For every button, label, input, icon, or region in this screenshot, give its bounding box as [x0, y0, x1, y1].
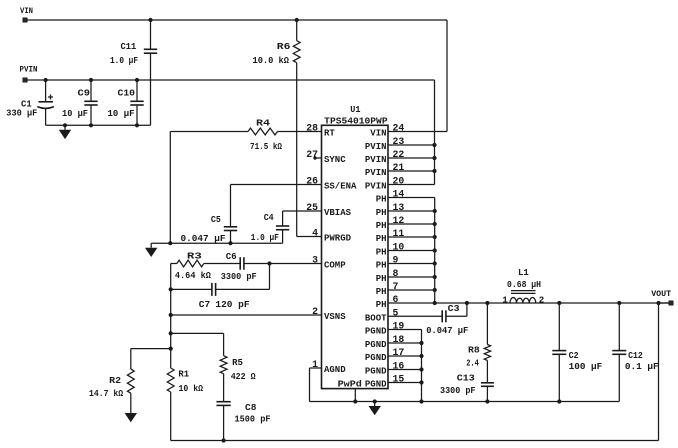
resistor R3 — [171, 260, 241, 267]
svg-text:71.5 kΩ: 71.5 kΩ — [250, 141, 282, 152]
wire PVIN pin at y=158 — [388, 157, 435, 159]
node C2 on gnd rail — [557, 399, 561, 403]
svg-text:PVIN: PVIN — [365, 142, 387, 152]
svg-text:422 Ω: 422 Ω — [231, 371, 256, 382]
svg-text:AGND: AGND — [324, 365, 346, 375]
node PH bus at y=277 — [433, 275, 437, 279]
wire PVIN pin at y=145 — [388, 144, 435, 146]
svg-text:PH: PH — [376, 234, 387, 244]
svg-text:R8: R8 — [468, 344, 480, 355]
svg-text:10 µF: 10 µF — [62, 108, 88, 119]
node PGND bus at y=343 — [419, 341, 423, 345]
capacitor C13 — [481, 383, 494, 402]
node PH bus at y=290 — [433, 288, 437, 292]
resistor R1 — [167, 368, 174, 441]
svg-text:COMP: COMP — [324, 261, 346, 271]
resistor R4 — [170, 128, 321, 135]
svg-text:120 pF: 120 pF — [215, 299, 249, 310]
node VSNS junction — [169, 313, 173, 317]
node C9 bottom — [89, 123, 93, 127]
svg-text:C13: C13 — [457, 373, 475, 384]
svg-text:RT: RT — [324, 129, 335, 139]
svg-text:3300 pF: 3300 pF — [440, 385, 476, 396]
svg-text:U1: U1 — [350, 104, 360, 115]
inductor L1 — [510, 291, 536, 303]
capacitor C10 — [130, 80, 143, 125]
svg-text:VBIAS: VBIAS — [324, 208, 352, 218]
node C13 on gnd rail — [485, 399, 489, 403]
capacitor C11 — [144, 20, 157, 125]
node PVIN/C9 — [89, 78, 93, 82]
wire power ground rail — [310, 401, 620, 403]
terminal PVIN — [23, 78, 27, 82]
capacitor C6 — [240, 257, 321, 270]
node C5 on gnd rail — [228, 241, 232, 245]
svg-text:14.7 kΩ: 14.7 kΩ — [89, 388, 123, 399]
svg-text:PH: PH — [376, 221, 387, 231]
svg-text:330 µF: 330 µF — [6, 108, 37, 119]
terminal VOUT — [669, 301, 673, 305]
svg-text:C3: C3 — [448, 303, 460, 314]
wire VIN pin 24 stub — [388, 131, 447, 133]
svg-text:1500 pF: 1500 pF — [235, 413, 271, 424]
node VIN/R6 junction — [295, 18, 299, 22]
svg-text:C5: C5 — [211, 214, 221, 225]
wire PH pin at y=224 — [388, 223, 435, 225]
node R2 branch tap — [169, 347, 173, 351]
node PGND bus on gnd rail — [419, 399, 423, 403]
wire BOOT pin 5 — [388, 315, 442, 317]
wire VIN rail — [27, 19, 447, 21]
svg-text:10 µF: 10 µF — [108, 108, 135, 119]
wire PH output line to VOUT — [435, 302, 669, 304]
svg-text:PwPd: PwPd — [338, 379, 362, 390]
svg-text:0.68 µH: 0.68 µH — [507, 279, 541, 290]
capacitor C3 — [442, 303, 467, 322]
node C2 tap — [557, 301, 561, 305]
node PwPd on gnd rail — [353, 399, 357, 403]
terminal VIN — [23, 18, 27, 22]
svg-text:PVIN: PVIN — [20, 65, 38, 75]
svg-text:C4: C4 — [264, 212, 274, 223]
node SYNC stub end — [313, 156, 316, 159]
resistor R2 — [127, 349, 134, 409]
svg-text:0.047 µF: 0.047 µF — [426, 325, 468, 336]
svg-text:PGND: PGND — [365, 340, 387, 350]
wire VBIAS pin 25 — [283, 210, 322, 212]
svg-text:PVIN: PVIN — [365, 155, 387, 165]
svg-text:VIN: VIN — [20, 6, 33, 16]
svg-text:R5: R5 — [232, 357, 243, 368]
node PGND bus at y=382.5 — [419, 380, 423, 384]
node C12 tap — [617, 301, 621, 305]
wire input ground rail — [46, 124, 151, 126]
svg-text:R4: R4 — [256, 118, 270, 129]
node COMP/C7 branch — [267, 261, 271, 265]
svg-text:PVIN: PVIN — [365, 168, 387, 178]
ground input rail — [59, 125, 71, 139]
wire PVIN rail — [27, 79, 435, 81]
svg-text:SYNC: SYNC — [324, 155, 346, 165]
svg-text:R1: R1 — [178, 369, 189, 380]
svg-text:C10: C10 — [118, 88, 136, 99]
resistor R8 — [484, 303, 490, 383]
svg-text:10.0 kΩ: 10.0 kΩ — [253, 55, 290, 66]
wire down to C4 — [282, 211, 284, 226]
svg-text:PH: PH — [376, 195, 387, 205]
svg-text:PH: PH — [376, 300, 387, 310]
svg-text:C12: C12 — [628, 350, 643, 361]
svg-text:PH: PH — [376, 248, 387, 258]
svg-text:PH: PH — [376, 287, 387, 297]
svg-text:C8: C8 — [245, 402, 257, 413]
node PH bus at y=224 — [433, 222, 437, 226]
wire PVIN pin at y=171 — [388, 170, 435, 172]
svg-text:1: 1 — [502, 295, 508, 306]
wire VSNS pin 2 — [171, 314, 322, 316]
op-amp U1 TPS54010PWP body — [322, 125, 389, 388]
capacitor C12 — [612, 303, 626, 402]
capacitor C7 — [171, 264, 270, 296]
node feedback tap — [656, 301, 660, 305]
node R8 snubber tap — [485, 301, 489, 305]
svg-text:PGND: PGND — [365, 353, 387, 363]
svg-text:2.4: 2.4 — [466, 357, 479, 368]
ground R2 — [125, 409, 137, 423]
node PVIN/C10 — [135, 78, 139, 82]
svg-text:VIN: VIN — [370, 129, 386, 139]
svg-text:PWRGD: PWRGD — [324, 234, 352, 244]
wire PH bus — [434, 198, 436, 304]
ground analog rail — [145, 243, 157, 257]
node PVIN/C1 — [44, 78, 48, 82]
wire to VOUT terminal — [659, 302, 670, 304]
wire down to C5 — [230, 185, 232, 227]
wire R4 left leg down to analog gnd rail — [169, 132, 171, 244]
wire PH pin at y=197.5 — [388, 197, 435, 199]
svg-text:4: 4 — [312, 227, 318, 238]
wire PGND pin at y=343 — [388, 342, 422, 344]
wire PH pin at y=303 — [388, 302, 435, 304]
svg-text:C6: C6 — [226, 251, 237, 262]
node C7 left on feedback stem — [169, 287, 173, 291]
resistor R5 — [220, 333, 227, 401]
wire PGND bus — [421, 330, 423, 402]
svg-text:PH: PH — [376, 274, 387, 284]
svg-text:PGND: PGND — [365, 327, 387, 337]
svg-text:1.0 µF: 1.0 µF — [251, 232, 279, 243]
wire PGND pin at y=356 — [388, 355, 422, 357]
svg-text:PGND: PGND — [365, 367, 387, 377]
svg-text:R6: R6 — [277, 41, 291, 52]
svg-text:PH: PH — [376, 208, 387, 218]
node R5 branch tap — [169, 331, 173, 335]
wire feedback stem (COMP to R1) — [170, 264, 172, 369]
svg-text:2: 2 — [539, 295, 545, 306]
svg-text:BOOT: BOOT — [365, 314, 387, 324]
svg-text:0.047 µF: 0.047 µF — [181, 233, 226, 244]
svg-text:C2: C2 — [569, 350, 579, 361]
svg-text:PVIN: PVIN — [365, 182, 387, 192]
svg-text:3300 pF: 3300 pF — [221, 271, 257, 282]
capacitor C4 — [276, 226, 289, 243]
svg-text:26: 26 — [306, 175, 318, 186]
svg-text:VSNS: VSNS — [324, 312, 346, 322]
wire VIN drop to pin 24 — [446, 20, 448, 132]
svg-text:28: 28 — [306, 122, 318, 133]
wire PGND pin at y=329.5 — [388, 329, 422, 331]
svg-text:C9: C9 — [78, 88, 91, 99]
node PVIN bus at y=171 — [432, 169, 436, 173]
svg-text:L1: L1 — [518, 267, 529, 278]
wire PVIN bus down to pins — [434, 80, 436, 185]
wire PH pin at y=250.5 — [388, 250, 435, 252]
node R4 leg on gnd rail — [168, 241, 172, 245]
wire PH pin at y=277 — [388, 276, 435, 278]
wire feedback drop — [658, 303, 660, 441]
wire SS/ENA pin 26 — [231, 184, 322, 186]
wire PGND pin at y=369.5 — [388, 369, 422, 371]
node C10 bottom — [135, 123, 139, 127]
wire analog ground rail — [151, 242, 282, 244]
node PVIN bus at y=145 — [432, 143, 436, 147]
wire PwPd stub — [354, 389, 356, 402]
svg-text:SS/ENA: SS/ENA — [324, 182, 357, 192]
wire PH pin at y=211 — [388, 210, 435, 212]
svg-text:1.0 µF: 1.0 µF — [110, 55, 138, 66]
svg-text:C11: C11 — [121, 41, 137, 52]
svg-text:TPS54010PWP: TPS54010PWP — [324, 116, 388, 127]
svg-text:10 kΩ: 10 kΩ — [179, 383, 204, 394]
svg-text:3: 3 — [312, 254, 318, 265]
svg-text:4.64 kΩ: 4.64 kΩ — [175, 270, 211, 281]
wire PH pin at y=237 — [388, 236, 435, 238]
svg-text:PGND: PGND — [365, 380, 387, 390]
wire PH pin at y=290 — [388, 289, 435, 291]
resistor R6 — [293, 20, 300, 237]
svg-text:100 µF: 100 µF — [569, 361, 603, 372]
wire pin 27 SYNC stub — [315, 157, 322, 159]
capacitor C1 (polarized) — [37, 80, 54, 125]
capacitor C5 — [224, 227, 237, 243]
node PGND bus at y=356 — [419, 354, 423, 358]
node PH bus at y=263.5 — [433, 261, 437, 265]
wire to R2 — [131, 348, 171, 350]
svg-text:VOUT: VOUT — [651, 289, 671, 299]
capacitor C8 — [216, 402, 230, 441]
capacitor C2 — [552, 303, 566, 402]
node C8 on feedback rail — [222, 438, 226, 442]
node PH bus at y=250.5 — [433, 248, 437, 252]
wire PVIN pin at y=184.5 — [388, 184, 435, 186]
wire PH pin at y=263.5 — [388, 263, 435, 265]
svg-text:2: 2 — [312, 306, 318, 317]
capacitor C9 — [84, 80, 97, 125]
node VIN/C11 junction — [148, 18, 152, 22]
ground power rail — [369, 402, 381, 416]
node PH bus at y=237 — [433, 235, 437, 239]
node gnd symbol tap — [373, 399, 377, 403]
node PH bus on output line — [433, 301, 437, 305]
svg-text:PH: PH — [376, 261, 387, 271]
node PH bus at y=211 — [433, 209, 437, 213]
wire to R5 — [171, 332, 224, 334]
wire feedback rail — [171, 440, 659, 442]
node PGND bus at y=369.5 — [419, 367, 423, 371]
wire AGND pin 1 — [310, 368, 322, 402]
wire R6 to PWRGD pin 4 — [297, 236, 322, 238]
svg-text:25: 25 — [306, 202, 318, 213]
node PVIN bus at y=158 — [432, 156, 436, 160]
svg-text:R2: R2 — [109, 375, 121, 386]
node C3 on output line — [465, 301, 469, 305]
svg-text:R3: R3 — [187, 250, 202, 261]
svg-text:C7: C7 — [199, 299, 211, 310]
wire PGND pin at y=382.5 — [388, 382, 422, 384]
node gnd symbol tap input rail — [63, 123, 67, 127]
svg-text:0.1 µF: 0.1 µF — [625, 361, 659, 372]
